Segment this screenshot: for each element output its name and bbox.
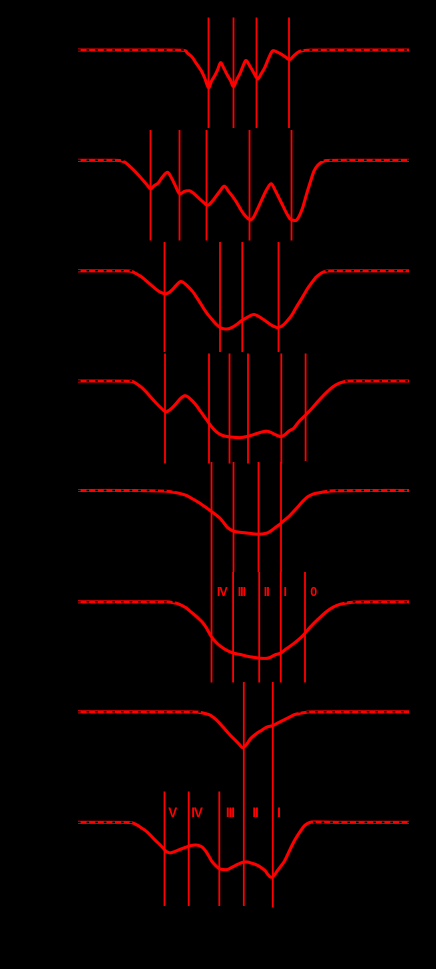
marker line x=165.0 [164, 354, 166, 464]
marker line x=281.0 [280, 462, 282, 572]
marker line x=229.5 [229, 354, 231, 464]
marker line x=206.5 [206, 130, 208, 241]
spectrum curve 4 [78, 381, 409, 438]
marker line x=280.8 [280, 572, 282, 683]
svg-text:0: 0 [310, 585, 317, 599]
marker line x=233.1 [232, 572, 234, 683]
marker line x=242.3 [241, 242, 243, 352]
svg-text:I: I [277, 805, 280, 820]
svg-text:II: II [264, 585, 269, 599]
marker line x=259.2 [258, 572, 260, 683]
svg-text:IV: IV [217, 585, 228, 599]
marker line x=219.3 [218, 792, 220, 907]
marker line x=233.5 [233, 18, 235, 129]
marker line x=305.0 [304, 572, 306, 683]
marker line x=243.8 [243, 682, 245, 906]
marker line x=209.0 [208, 354, 210, 464]
marker line x=278.5 [278, 242, 280, 352]
svg-text:V: V [168, 805, 177, 820]
spectrum curve 5 [78, 490, 409, 534]
svg-text:II: II [252, 805, 258, 820]
marker line x=164.5 [164, 242, 166, 352]
marker line x=211.5 [211, 572, 213, 683]
spectrum curve 8 [78, 822, 409, 877]
svg-text:IV: IV [191, 805, 203, 820]
marker line x=164.5 [164, 792, 166, 907]
spectrum curve 1 [78, 50, 409, 88]
marker line x=291.5 [291, 130, 293, 241]
marker line x=258.5 [258, 462, 260, 572]
spectrum curve 7 [78, 712, 409, 748]
marker line x=272.8 [272, 682, 274, 908]
marker line x=211.5 [211, 462, 213, 572]
marker line x=179.5 [179, 130, 181, 241]
marker line x=188.7 [188, 792, 190, 907]
marker line x=150.5 [150, 130, 152, 241]
marker line x=281.3 [280, 354, 282, 464]
spectrum curve 6 [78, 602, 409, 659]
spectrum curve 2 [78, 160, 409, 220]
labels curve 8 [168, 805, 280, 820]
marker line x=208.5 [208, 18, 210, 129]
marker line x=233.5 [233, 462, 235, 572]
marker line x=248.0 [247, 354, 249, 464]
labels curve 6 [217, 585, 317, 599]
marker line x=305.6 [305, 354, 307, 462]
spectrum curve 3 [78, 271, 409, 329]
marker line x=220.0 [219, 242, 221, 352]
svg-text:III: III [238, 585, 246, 599]
marker line x=249.5 [249, 130, 251, 241]
marker line x=256.5 [256, 18, 258, 129]
svg-text:III: III [226, 805, 234, 820]
marker line x=289.0 [288, 18, 290, 129]
